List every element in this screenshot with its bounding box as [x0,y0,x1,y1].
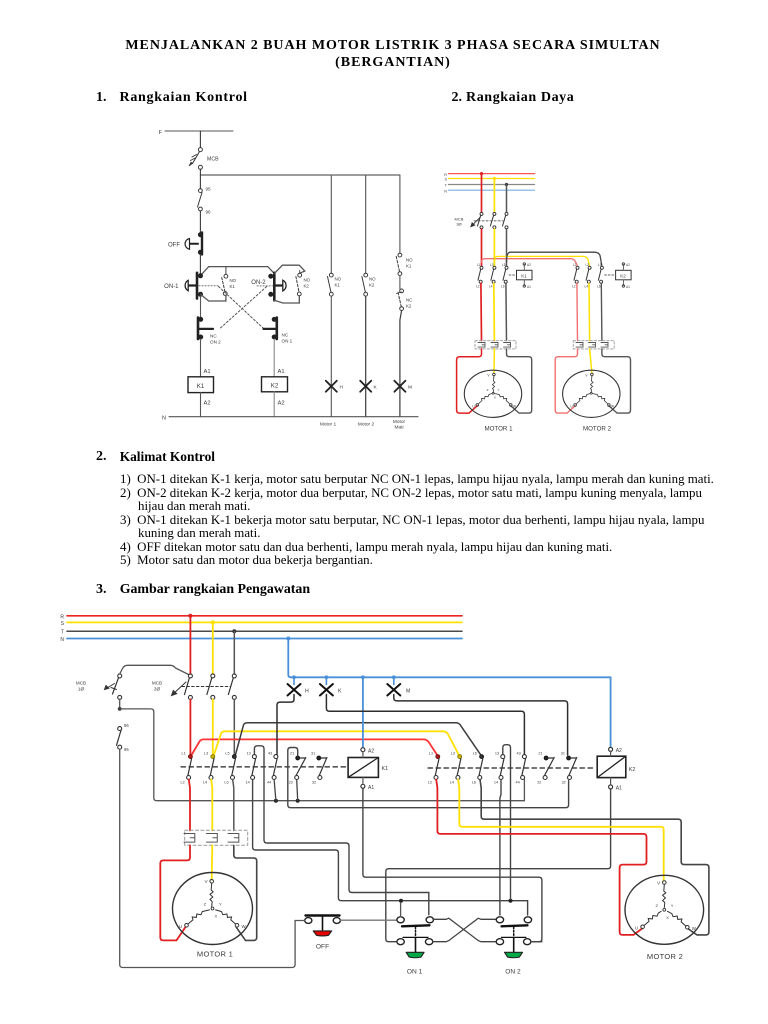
svg-text:K2: K2 [369,283,375,288]
wire yellow K1 to overload 1 [493,283,496,340]
wire OFF right to ON-1 [341,919,397,921]
wire top rail ON-1 to ON-2 [201,267,275,276]
svg-text:95: 95 [206,187,212,192]
svg-text:ON-1: ON-1 [164,284,179,290]
svg-text:43: 43 [268,752,272,756]
wire yellow K1 L4 to overload [211,780,212,831]
wire NC ON-1 to coil K2 [274,339,284,377]
svg-text:Mati: Mati [394,425,403,431]
contactor K1 aux NC contact 21-22 [289,752,306,785]
label MOTOR 2 (daya) [583,426,612,433]
svg-text:A2: A2 [278,401,285,407]
svg-text:L6: L6 [501,285,505,289]
svg-text:T: T [445,184,448,188]
contactor K2 aux contact 43-44 [516,752,527,785]
svg-text:Motor 1: Motor 1 [320,422,337,428]
label Motor 2 [358,422,375,428]
svg-text:K1: K1 [521,274,527,279]
svg-text:NO: NO [304,278,311,283]
wire blue drop to K1 coil A2 [362,677,364,747]
breaker MCB 3phase (pengawatan) [152,674,236,700]
svg-text:L3: L3 [451,752,455,756]
contact NC K2 (lamp M chain) [397,289,413,311]
bus R (daya) [444,173,534,177]
svg-text:F: F [159,130,163,136]
bus T (pengawatan) [61,630,462,636]
bus N (pengawatan) [60,637,462,643]
svg-text:L2: L2 [572,285,576,289]
wire F drop [199,131,201,148]
contactor K2 pole L1-L2 [428,752,440,785]
svg-text:31: 31 [311,752,315,756]
wire main rail down [199,175,201,189]
svg-text:L1: L1 [182,752,186,756]
wire top rail ON-2 to NO K2 [274,265,304,273]
wire R drop to MCB3 (red) [188,614,192,674]
wire lamp branch 1 [330,175,332,273]
svg-text:X: X [494,396,496,400]
contactor K1 pole L5-L6 [224,752,236,785]
wire MCB to junction [200,169,400,175]
contact 95-96 overload NC (pengawatan) [117,723,130,752]
contactor K1 aux contact 13-14 [246,752,257,785]
svg-text:MCB: MCB [207,157,219,163]
wire T phase drop (black) [505,183,508,212]
contact NC ON-2 [198,317,221,344]
svg-text:32: 32 [312,781,316,785]
svg-text:A1: A1 [527,285,531,289]
svg-text:T: T [61,630,64,636]
svg-text:A2: A2 [626,263,630,267]
svg-text:L1: L1 [573,263,577,267]
wire K2 contact 13 drop to button rail [503,745,511,899]
svg-text:L1: L1 [429,752,433,756]
svg-text:OFF: OFF [168,243,180,249]
svg-text:L2: L2 [476,285,480,289]
wire K1 contact 44 stub to supply rail [274,780,276,801]
svg-text:H: H [305,688,309,694]
contactor K2 aux contact 13-14 [494,752,505,785]
wire OFF to ON-1 [199,254,201,274]
svg-text:L4: L4 [489,285,493,289]
wire ON-1 down to NC ON-2 [200,296,202,317]
wire black K1 to overload 1 [505,283,508,340]
svg-text:K1: K1 [230,284,236,289]
svg-text:L6: L6 [472,781,476,785]
svg-text:V: V [657,880,660,885]
wire red K2 L2 to motor 2 [436,780,646,935]
svg-text:ON-2: ON-2 [251,280,266,286]
wire red K1 L2 to overload [189,780,190,831]
svg-text:MOTOR 2: MOTOR 2 [647,952,683,961]
svg-text:96: 96 [124,723,129,728]
svg-text:Motor 2: Motor 2 [358,422,375,428]
svg-text:A2: A2 [368,748,374,754]
label MOTOR 2 (pengawatan) [647,952,683,961]
wire S drop to MCB3 (yellow) [211,620,215,674]
svg-text:NO: NO [369,277,376,282]
svg-text:Y: Y [219,902,222,907]
svg-text:S: S [444,178,447,182]
wire OFF left to supply [295,920,305,922]
contact NO K1 (lamp H) [328,273,342,296]
svg-text:ON 1: ON 1 [407,969,423,976]
node F supply line [159,130,233,136]
wire K2 A1 to ON-1 NC interlock [386,789,611,942]
svg-text:K1: K1 [382,766,389,772]
pushbutton ON-2 [251,273,286,301]
overload relay (pengawatan) [184,830,248,845]
svg-text:A2: A2 [616,748,622,754]
svg-text:A1: A1 [368,785,374,791]
wire K2 contact 14 drop to ON-2 [500,780,501,916]
page title line 1 [0,38,768,54]
svg-text:X: X [215,914,218,919]
heading 2 Kalimat Kontrol [96,449,107,465]
svg-text:K2: K2 [304,284,310,289]
contactor K1 linkage dashed [181,766,347,768]
contact NO K2 (lamp K) [362,273,376,296]
svg-text:L5: L5 [225,752,229,756]
wire N drop (blue) [286,637,291,678]
svg-text:L3: L3 [586,263,590,267]
svg-text:K: K [374,385,378,391]
wire N lamp rail (blue) [291,675,611,747]
label MOTOR 1 (daya) [484,426,513,433]
svg-text:L6: L6 [597,285,601,289]
svg-text:Motor: Motor [393,419,406,425]
contactor K2 aux NC contact 21-22 [537,752,554,785]
wire red overload to motor 1 [160,845,190,940]
svg-text:Z: Z [487,388,489,392]
svg-text:N: N [162,416,166,422]
wire yellow K2 to overload 2 [588,283,591,340]
wire S phase drop (yellow) [493,177,496,212]
svg-text:L3: L3 [490,263,494,267]
bus N (daya) [444,189,534,193]
breaker MCB 1phase [76,674,122,700]
wire black MCB3 to K1 L5 [233,699,235,755]
wire black K2 to overload 2 [600,283,603,340]
wire lamp M to K2 contact 31 [394,695,568,756]
svg-text:L2: L2 [181,781,185,785]
svg-text:K2: K2 [406,304,412,309]
wire red overload to motor 1 (daya) [457,349,482,413]
svg-text:1Ø: 1Ø [78,687,85,692]
wire black MCB to K1 contact (daya) [506,229,508,266]
wire red link K1 to K2 [192,739,438,755]
wire red MCB to K1 contact (daya) [481,229,483,266]
svg-text:X: X [666,915,669,920]
contactor K2 main contacts (daya) [572,263,615,289]
heading 3 Gambar rangkaian Pengawatan [96,582,107,598]
wire red K1 to overload 1 [480,283,483,340]
svg-text:M: M [406,688,410,694]
link ON-1 plunger dotted [199,285,218,287]
wire lamp branch 2 [365,175,367,273]
svg-text:H: H [340,385,344,391]
svg-text:M: M [408,385,412,391]
coil K2 (control) [262,377,288,392]
wire red branch to K2 (daya) [482,259,578,266]
svg-text:V: V [205,879,208,884]
svg-text:OFF: OFF [316,944,329,951]
wire yellow branch to K2 (daya) [494,256,589,266]
label Motor 1 [320,422,337,428]
svg-text:ON 1: ON 1 [282,339,293,344]
svg-text:L5: L5 [598,263,602,267]
lamp H (pengawatan) [288,684,310,696]
pushbutton ON-2 (pengawatan) [496,917,531,976]
svg-text:V: V [585,374,588,378]
contact NC ON-1 [264,317,293,343]
wire NC ON-2 to coil K1 [201,339,211,377]
motor 1 (daya) [464,370,521,417]
svg-text:22: 22 [289,781,293,785]
wire yellow link K1 to K2 [214,731,459,755]
wire red MCB3 to K1 L1 [189,699,191,755]
svg-text:L4: L4 [585,285,589,289]
wire to lamp K [365,296,367,417]
wire black K2 L6 to motor 2 [480,780,709,935]
svg-text:L5: L5 [502,263,506,267]
svg-text:A1: A1 [616,785,622,791]
svg-text:L4: L4 [450,781,454,785]
wire K1 A1 to ON-2 NC interlock [363,788,542,941]
wire lamp K to K2 contact 43 [326,695,524,756]
svg-text:L2: L2 [428,781,432,785]
svg-text:R: R [444,173,447,177]
svg-text:ON 2: ON 2 [505,969,521,976]
contact NO K2 (hold-in, right) [296,273,311,295]
wire junction to supply rail (down-right) [120,709,525,803]
wire cross interlock ON-2 to ON-1 [433,918,496,942]
svg-text:L5: L5 [473,752,477,756]
svg-text:14: 14 [246,781,250,785]
svg-text:R: R [60,614,64,620]
svg-text:K2: K2 [271,383,279,390]
wire black overload to motor 2 (daya) [602,349,631,413]
lamp K (pengawatan) [320,684,342,696]
wire K1 contact 22 stub to supply rail [297,780,298,801]
wire to lamp M [400,311,402,417]
wire black overload to motor 1 [234,845,257,940]
coil K2 (pengawatan) [597,747,635,791]
wire between contacts [399,276,401,289]
wire lamp branch 3 [399,175,401,253]
wire black K1 L6 to overload [233,780,234,831]
lamp H (control) [326,381,344,392]
svg-text:13: 13 [247,752,251,756]
bus S (daya) [444,178,534,182]
numbered control sentences [120,473,738,568]
svg-text:Z: Z [204,902,207,907]
svg-text:K: K [338,688,342,694]
wire coil K2 to N [274,392,284,417]
svg-text:A1: A1 [204,369,211,375]
wire K1 contact 21 loop to NC chain [288,748,569,808]
lamp K (control) [360,381,377,392]
wire ON-2 bottom-right stub [532,941,542,943]
coil K1 (pengawatan) [348,748,388,791]
svg-text:13: 13 [495,752,499,756]
wire black link K1 to K2 [235,723,480,755]
motor 1 (pengawatan) [173,873,253,945]
svg-text:A2: A2 [527,263,531,267]
svg-text:NO: NO [335,277,342,282]
breaker MCB 3phase (daya) [455,212,508,228]
lamp M (control) [394,381,412,392]
contactor K2 pole L5-L6 [472,752,484,785]
heading 2 Rangkaian Daya [452,90,463,106]
wire bottom rail ON-1/NO K1 [201,294,226,301]
svg-text:MOTOR 1: MOTOR 1 [197,950,233,959]
svg-text:NO: NO [406,258,413,263]
pushbutton ON-1 [164,273,202,299]
contact NO K1 (lamp M chain) [396,253,413,275]
contactor K1 aux contact 43-44 [267,752,278,785]
wire cross interlock ON-1 to ON-2 [433,918,496,942]
node N bottom rail [162,416,418,422]
svg-text:43: 43 [517,752,521,756]
link dashed cross interlock left-to-right [219,287,265,329]
svg-text:A2: A2 [204,401,211,407]
svg-text:L3: L3 [204,752,208,756]
svg-text:21: 21 [538,752,542,756]
wire bottom rail ON-2/NO K2 [274,296,299,303]
svg-text:L4: L4 [203,781,207,785]
contactor K1 pole L3-L4 [203,752,215,785]
wire K1 contact 14 staircase to button rail [253,780,528,916]
svg-text:22: 22 [537,781,541,785]
overload relay motor 2 (daya) [573,341,614,349]
svg-text:K2: K2 [620,274,626,279]
svg-text:3Ø: 3Ø [456,222,461,227]
svg-text:32: 32 [562,781,566,785]
contactor K2 pole L3-L4 [450,752,462,785]
contactor K2 linkage dashed [428,767,596,769]
wire yellow K2 L4 to motor 2 [458,780,664,881]
wire MCB1 to junction [118,699,122,710]
wire yellow overload to motor 1 (daya) [493,349,496,373]
contactor K2 aux NC contact 31-32 [561,752,577,785]
wire yellow MCB to K1 contact (daya) [493,229,495,266]
contactor K1 main contacts (daya) [476,263,516,289]
page title line 2 [0,55,768,71]
coil K2 (daya) [616,263,632,289]
svg-text:Y: Y [671,903,674,908]
motor 2 (daya) [563,370,620,417]
contact NO K1 (hold-in, left) [222,274,237,295]
link dashed cross interlock right-to-left [219,287,266,329]
pushbutton ON-1 (pengawatan) [397,917,434,976]
svg-text:96: 96 [206,210,212,215]
coil K1 (control) [188,377,214,393]
svg-text:A1: A1 [278,369,285,375]
bus S (pengawatan) [61,621,462,627]
svg-text:3Ø: 3Ø [154,687,161,692]
svg-text:V: V [487,374,490,378]
lamp M (pengawatan) [387,684,410,696]
contactor K1 pole L1-L2 [181,752,193,785]
contact 95-96 overload NC [198,187,212,215]
svg-text:W: W [513,405,516,409]
wire lamp H to K1 contact 43 [277,695,294,756]
bus R (pengawatan) [60,614,462,620]
label Motor Mati [393,419,406,431]
contactor K1 aux NC contact 31-32 [311,752,327,785]
svg-text:Z: Z [656,903,659,908]
svg-text:K1: K1 [406,264,412,269]
wire black branch to K2 (daya) [507,252,602,266]
svg-text:K1: K1 [197,383,205,390]
svg-text:W: W [611,405,614,409]
svg-text:MCB: MCB [76,681,86,686]
wire yellow overload to motor 2 (daya) [590,349,592,373]
wire R phase drop (red) [480,172,483,212]
svg-text:A1: A1 [626,285,630,289]
link ON-2 plunger dotted [257,285,273,287]
svg-text:MOTOR 2: MOTOR 2 [583,426,612,433]
label MOTOR 1 (pengawatan) [197,950,233,959]
wire to lamp H [330,296,332,417]
svg-text:ON 2: ON 2 [210,340,221,345]
svg-text:MOTOR 1: MOTOR 1 [484,426,513,433]
wire to OFF [199,211,201,233]
wire coil K1 to N [201,393,211,417]
svg-text:NC: NC [210,334,217,339]
svg-text:Y: Y [498,388,500,392]
svg-text:21: 21 [290,752,294,756]
svg-text:L1: L1 [477,263,481,267]
wire ON-1 top-left stub [400,903,402,917]
wire MCB1 feed from red line [120,665,189,674]
svg-text:31: 31 [561,752,565,756]
svg-text:K1: K1 [335,283,341,288]
wire K1 contact 13 staircase to ON-1 [254,746,428,915]
pushbutton OFF (pengawatan) [305,916,341,951]
wire yellow overload to motor 1 [211,845,214,879]
breaker MCB (control) [189,148,219,170]
overload relay motor 1 (daya) [475,341,516,349]
wire yellow MCB3 to K1 L3 [212,699,214,755]
wire T drop to MCB3 (black) [232,629,236,674]
svg-text:N: N [444,189,447,193]
svg-text:NC: NC [282,333,289,338]
wire red overload to motor 2 (daya) [555,349,577,413]
svg-text:95: 95 [124,747,129,752]
svg-text:K2: K2 [629,767,636,773]
svg-text:14: 14 [494,781,498,785]
coil K1 (daya) [517,263,533,289]
svg-text:44: 44 [516,781,520,785]
pushbutton OFF (control) [168,233,202,255]
svg-text:U: U [179,924,182,929]
wire black overload to motor 1 (daya) [507,349,532,413]
svg-text:44: 44 [267,781,271,785]
svg-text:S: S [61,621,65,627]
motor 2 (pengawatan) [625,875,704,944]
bus T (daya) [445,184,535,188]
heading 1 Rangkaian Kontrol [96,90,107,106]
svg-text:U: U [635,925,638,930]
wire 95 down left side [120,749,295,967]
wire red K2 to overload 2 [576,283,579,340]
svg-text:MCB: MCB [152,681,162,686]
svg-text:N: N [60,637,64,643]
svg-text:L6: L6 [224,781,228,785]
svg-text:NC: NC [406,298,412,303]
